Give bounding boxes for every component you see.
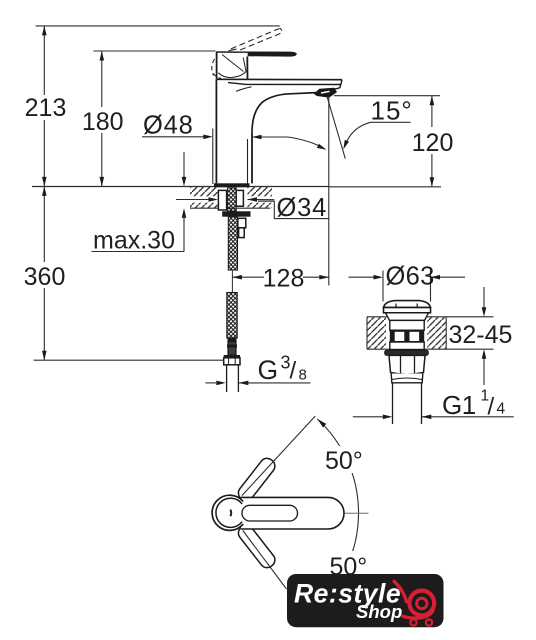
svg-text:Ø48: Ø48 [143,112,194,140]
diameter 34 label box [258,201,329,218]
drain deck bottom line with 32-45 extension [367,348,494,350]
diameter 63 dimension [349,276,375,278]
fastening flange under deck [222,211,250,216]
spout body column [215,79,217,183]
drain deck hatched band left of waste hole [367,317,386,348]
basin deck hatched band right of faucet hole [248,187,273,208]
right mounting sleeve [236,190,243,206]
diameter 34 arrows at shank [176,199,209,201]
svg-text:4: 4 [497,401,506,418]
svg-text:G: G [258,355,279,385]
handle knob inner arc [216,498,242,527]
svg-text:/: / [488,394,495,421]
at-sign outer ring [409,591,434,616]
svg-text:Shop: Shop [356,601,402,622]
spout underside curve [252,93,316,133]
dimension line 180 [101,51,103,107]
G3/8 dimension arrows [206,382,217,384]
handle swing arc 50 degrees each way [317,419,358,607]
faucet base gasket plate [214,183,250,187]
max.30 lower arrow onto deck underside [183,218,185,252]
tilted 15deg stream line [327,97,345,159]
annulus white-out between knob arcs [215,497,239,529]
drain deck hatched band right of waste hole [427,317,446,348]
upper rotated lever position [236,456,278,504]
deck top surface line [32,186,329,188]
svg-text:128: 128 [263,265,305,293]
flexible braided hose [227,293,237,339]
centreline right of lever [345,512,369,514]
svg-text:360: 360 [24,263,66,291]
svg-text:32-45: 32-45 [449,321,513,349]
G1 1/4 dimension arrows [353,416,383,418]
knob centre tick [229,510,232,517]
drain deck left edge [366,317,368,349]
drain deck top line with 32-45 extension [367,316,494,318]
svg-text:180: 180 [82,108,124,136]
lower 50deg wedge line [243,531,287,590]
G1 1/4 tailpipe [392,383,394,424]
pull rod guide blocks [238,218,246,228]
overall height 213 extent line (top) [36,25,280,27]
diameter 48 leader and arrows [142,136,204,138]
arc arrowhead upper [316,417,327,427]
dome interior shading lines [222,55,244,72]
raised lever shown dashed [231,28,280,49]
white halo behind diameter-34 arrows [176,196,218,202]
main lever top view [241,497,344,529]
svg-text:50°: 50° [325,447,363,475]
vertical stream reference line [328,97,330,286]
drain deck right edge [445,317,447,349]
basin deck hatched band left of faucet hole [190,187,218,208]
upper 50deg wedge line [242,416,315,495]
lever handle bar (rest position, dark side face) [216,52,296,57]
lever inner contour [242,505,298,521]
handle knob interior fill [217,498,246,527]
label 50 degrees lower (with mask over arc) [325,551,369,578]
spout end face [331,80,342,90]
cart basket bottom swoosh [402,611,433,618]
aerator (mousseur) [315,88,337,97]
lower rotated lever position [236,523,278,571]
at-sign inner ring [417,598,427,608]
dimension line 360 [43,186,45,262]
svg-text:8: 8 [299,367,307,384]
svg-text:/: / [290,358,297,385]
slotted body section [390,330,424,342]
waste body neck through deck [386,313,429,321]
32-45 deck thickness arrows [483,287,485,308]
svg-text:15°: 15° [371,96,413,126]
cart wheel right [426,619,432,625]
spray angle 15deg leader [371,121,411,123]
dashed arc of tilted dome rear [212,59,215,76]
cap rim [384,308,431,313]
spout front lower edge [228,83,341,85]
spout height reference line [334,95,440,97]
svg-text:Ø34: Ø34 [277,194,328,222]
threaded shank through deck [228,188,237,211]
logo plate [287,574,444,627]
diameter 63 extension lines [382,271,384,302]
spout top surface [216,78,342,80]
dimension line 128 [232,276,264,278]
svg-text:max.30: max.30 [93,227,175,255]
label 50 degrees upper (with mask over arc) [321,446,371,473]
height 180 extent line [93,50,215,52]
max.30 leader underline [92,251,185,253]
shading arc under spout shoulder [236,87,252,92]
svg-text:213: 213 [25,94,67,122]
diameter 48 extension lines [212,129,214,185]
svg-text:120: 120 [412,129,454,157]
cart wheel left [410,619,416,625]
centreline through 128 dimension gap [231,270,233,293]
waste cap dome [384,301,431,308]
curved leader to vertical stream reference [288,137,322,148]
G3/8 threaded pipe end [226,365,228,392]
hose end reference line [34,359,224,361]
hose crimp collar [228,338,237,342]
backnut (hex) [389,355,425,374]
left mounting sleeve [218,190,226,210]
handle knob outer arc [212,495,243,530]
seal flange under drain deck [385,350,429,355]
connection nut [224,355,240,358]
lower collar [391,374,423,383]
svg-text:Ø63: Ø63 [386,263,435,291]
deck top reference line extended right to 120 dimension [329,186,441,188]
deck underside line [190,207,270,209]
threaded tail section [228,217,237,270]
dimension line 120 [431,96,433,127]
max.30 upper reference arrow onto deck top [183,152,185,177]
handle dome (cartridge cover) [217,52,248,79]
svg-text:G1: G1 [442,390,476,420]
cart handle stroke [394,581,407,602]
dimension line 213 [43,26,45,95]
